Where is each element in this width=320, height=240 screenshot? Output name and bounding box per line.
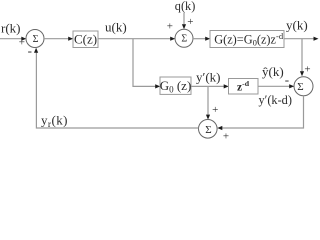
wire G0 to z^-d: [191, 84, 229, 88]
sign + right of S4: [223, 131, 229, 143]
svg-text:r(k): r(k): [1, 21, 21, 36]
svg-text:Σ: Σ: [33, 34, 39, 45]
block G0(z) model: [160, 77, 192, 95]
wire u(k) branch down to G0: [133, 39, 160, 89]
svg-text:u(k): u(k): [105, 20, 127, 35]
sign - left of S3: [285, 72, 289, 87]
sign + top of S3: [304, 63, 310, 75]
svg-text:q(k): q(k): [175, 0, 196, 13]
label y(k): [286, 18, 308, 33]
svg-text:+: +: [223, 131, 229, 143]
svg-text:G(z)=G0(z)z-d: G(z)=G0(z)z-d: [214, 31, 284, 48]
svg-text:ŷ(k): ŷ(k): [262, 64, 284, 79]
svg-text:+: +: [19, 36, 25, 48]
wire r(k) input: [0, 37, 26, 41]
label yhat(k): [262, 64, 284, 79]
summing junction S1: [26, 30, 44, 48]
svg-text:y(k): y(k): [286, 18, 308, 33]
svg-text:+: +: [187, 16, 193, 28]
summing junction S3: [294, 77, 313, 96]
label yr(k): [41, 113, 68, 131]
svg-text:+: +: [167, 21, 173, 33]
svg-text:y′(k-d): y′(k-d): [259, 93, 292, 107]
wire S4 output left and up to S1 (feedback): [34, 48, 199, 128]
summing junction S4: [199, 120, 218, 139]
svg-text:-: -: [285, 72, 289, 87]
label r(k): [1, 21, 21, 36]
block G(z)=G0(z)z^-d plant: [210, 31, 284, 48]
svg-text:y′(k): y′(k): [196, 70, 221, 85]
sign + at summing junction S1: [19, 36, 25, 48]
sign - at summing junction S1: [28, 43, 32, 58]
svg-text:yr(k): yr(k): [41, 113, 68, 131]
svg-text:Σ: Σ: [297, 81, 303, 93]
wire C(z) to S2: [98, 37, 175, 41]
label u(k): [105, 20, 127, 35]
svg-text:-: -: [28, 43, 32, 58]
wire y'(k) branch down to S4: [206, 86, 210, 119]
svg-text:+: +: [212, 104, 218, 116]
svg-text:Σ: Σ: [181, 33, 187, 44]
wire z^-d to S3: [258, 84, 294, 88]
wire q(k) into S2: [182, 13, 186, 30]
sign + top of S4: [212, 104, 218, 116]
svg-text:+: +: [304, 63, 310, 75]
label y'(k): [196, 70, 221, 85]
block C(z) controller: [73, 31, 98, 48]
wire y(k) branch down to S3: [300, 39, 304, 77]
wire G(z) to output y(k): [284, 37, 319, 41]
sign + left of S2: [167, 21, 173, 33]
svg-text:G0 (z): G0 (z): [160, 78, 192, 95]
wire S2 to G(z): [193, 37, 210, 41]
svg-text:Σ: Σ: [205, 124, 211, 136]
block z^-d delay: [229, 79, 259, 95]
label q(k): [175, 0, 196, 13]
sign + for q(k) input: [187, 16, 193, 28]
svg-text:C(z): C(z): [74, 32, 97, 47]
wire S1 to C(z): [44, 37, 73, 41]
label y'(k-d): [259, 93, 292, 107]
wire S3 output down and left to S4: [217, 96, 303, 130]
summing junction S2: [175, 29, 193, 47]
